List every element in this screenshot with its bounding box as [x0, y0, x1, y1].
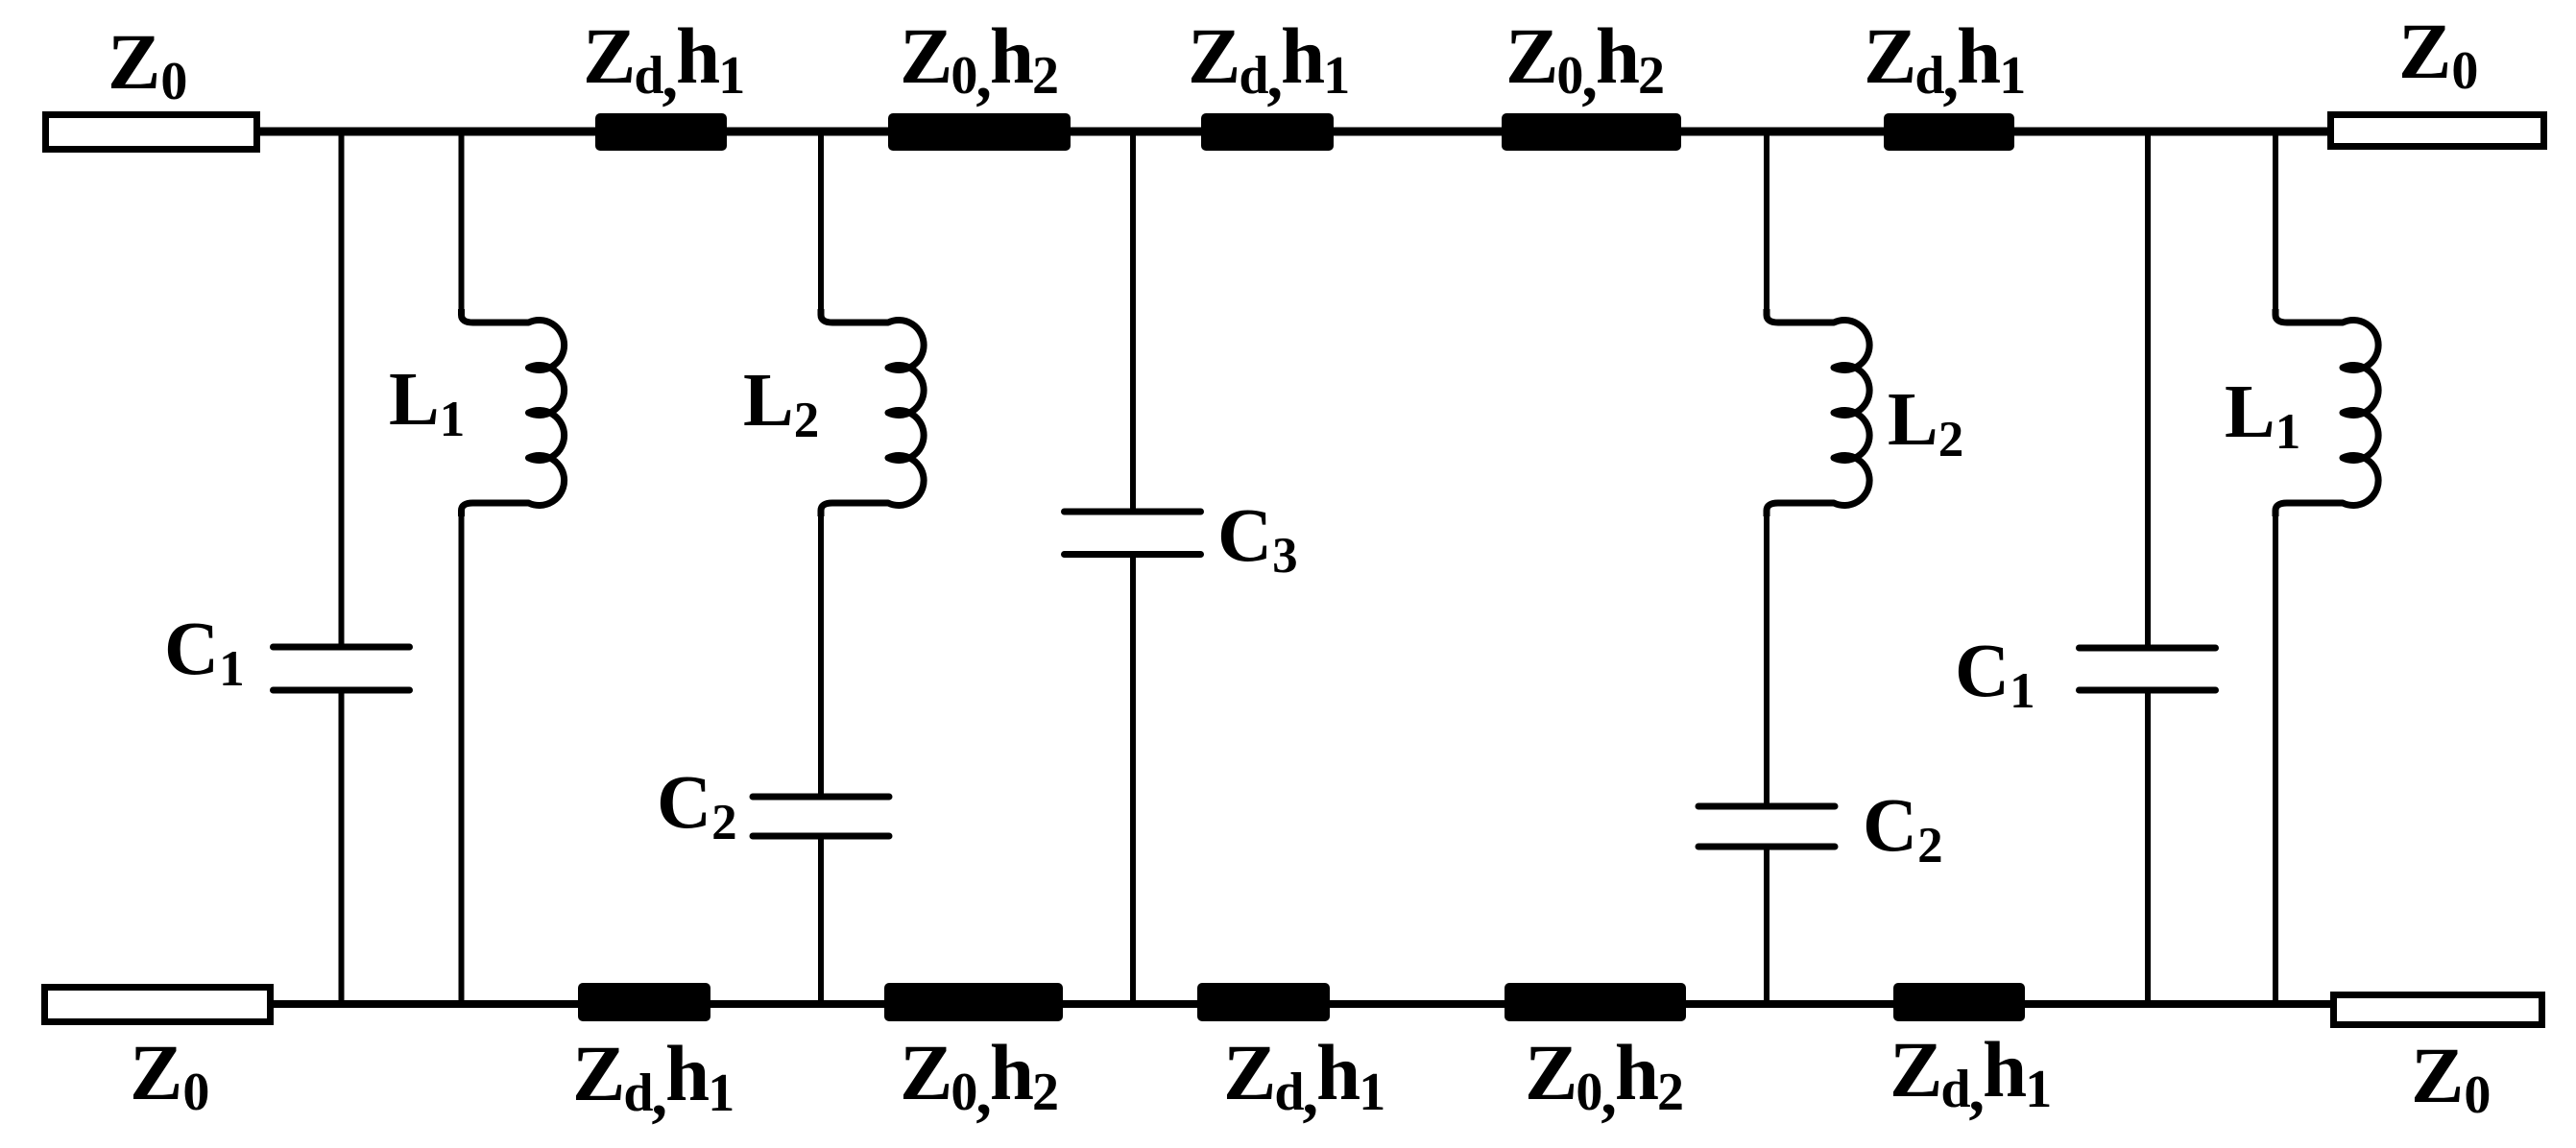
wire shunt branch L2+C2 left upper [818, 132, 824, 317]
capacitor C1 right [2080, 648, 2216, 690]
wire shunt branch L1 right upper [2273, 132, 2278, 317]
transmission line Z0,h2 bottom 4 [1505, 983, 1686, 1021]
transmission line Z0,h2 top 2 [888, 113, 1071, 151]
inductor L2 left [821, 309, 924, 516]
wire shunt branch C3 lower [1130, 555, 1136, 1005]
wire shunt branch L1 left lower [459, 509, 465, 1004]
capacitor C1 left [274, 647, 410, 690]
capacitor C3 [1065, 512, 1201, 555]
wire shunt branch C1 left upper [339, 132, 345, 647]
wire bottom rail [269, 1000, 2335, 1008]
port Z0 top-right [2331, 115, 2544, 147]
transmission line Zd,h1 bottom 5 [1893, 983, 2025, 1021]
wire shunt branch C3 upper [1130, 132, 1136, 512]
wire shunt branch L1 right lower [2273, 509, 2278, 1004]
port Z0 bottom-right [2334, 995, 2542, 1025]
wire shunt branch C1 right upper [2145, 132, 2151, 648]
wire top rail [255, 128, 2332, 136]
transmission line Zd,h1 bottom 1 [578, 983, 710, 1021]
capacitor C2 left [753, 797, 889, 836]
transmission line Zd,h1 top 5 [1884, 113, 2014, 151]
capacitor C2 right [1698, 806, 1835, 847]
wire between L2 and C2 right [1764, 509, 1769, 806]
wire shunt branch L2+C2 right upper [1764, 132, 1769, 317]
transmission line Zd,h1 bottom 3 [1197, 983, 1330, 1021]
inductor L2 right [1767, 309, 1869, 516]
transmission line Zd,h1 top 3 [1201, 113, 1334, 151]
wire shunt branch L1 left upper [459, 132, 465, 317]
wire below C2 left [818, 836, 824, 1004]
wire below C2 right [1764, 847, 1769, 1004]
inductor L1 right [2275, 309, 2378, 516]
port Z0 bottom-left [45, 988, 271, 1022]
transmission line Zd,h1 top 1 [595, 113, 727, 151]
port Z0 top-left [46, 115, 257, 150]
wire shunt branch C1 right lower [2145, 690, 2151, 1004]
inductor L1 left [462, 309, 565, 516]
wire between L2 and C2 left [818, 509, 824, 797]
wire shunt branch C1 left lower [339, 690, 345, 1004]
transmission line Z0,h2 bottom 2 [884, 983, 1063, 1021]
transmission line Z0,h2 top 4 [1502, 113, 1681, 151]
